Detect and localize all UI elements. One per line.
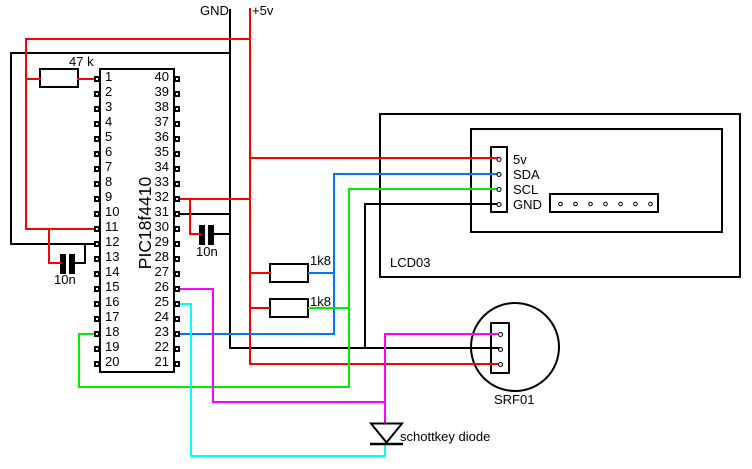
IC pin 4 square [94, 121, 100, 127]
SRF01 3-pin header [490, 322, 510, 374]
IC pin 39 number [130, 84, 169, 99]
LCD03 module outer box [379, 113, 741, 278]
capacitor C2 10n left plate [199, 225, 205, 245]
IC pin 1 number [105, 69, 112, 84]
resistor R-SDA 1k8 body [269, 263, 309, 283]
net label +5v [252, 3, 273, 18]
wire green bottom horizontal [78, 386, 350, 388]
wire cyan bottom horizontal [190, 455, 386, 457]
IC pin 38 number [130, 99, 169, 114]
IC pin 5 number [105, 129, 112, 144]
IC pin 16 number [105, 294, 119, 309]
wire red 47k right to pin 1 [77, 78, 95, 80]
IC pin 4 number [105, 114, 112, 129]
wire black C1 branch vertical [84, 243, 86, 264]
LCD03 pin label 5v [513, 152, 527, 167]
IC pin 19 number [105, 339, 119, 354]
IC pin 33 number [130, 174, 169, 189]
wire magenta pin 26 horizontal [179, 288, 214, 290]
wire red to 1k8 R-SDA left [249, 272, 271, 274]
IC pin 40 number [130, 69, 169, 84]
wire blue to LCD03 SDA pin [333, 173, 498, 175]
IC pin 31 number [130, 204, 169, 219]
label schottkey diode [400, 429, 490, 444]
wire blue pin 23 horizontal [179, 333, 335, 335]
IC pin 14 number [105, 264, 119, 279]
IC pin 25 number [130, 294, 169, 309]
wire red C1 left plate link [48, 262, 62, 264]
wire red top horizontal [25, 38, 251, 40]
value label 1k8 (R-SDA) [310, 253, 331, 268]
IC pin 16 square [94, 301, 100, 307]
IC pin 21 square [174, 361, 180, 367]
IC pin 35 square [174, 151, 180, 157]
IC pin 40 square [174, 76, 180, 82]
IC pin 37 square [174, 121, 180, 127]
value label 10n (C1) [54, 272, 76, 287]
IC pin 14 square [94, 271, 100, 277]
IC pin 2 square [94, 91, 100, 97]
IC pin 28 number [130, 249, 169, 264]
wire magenta to SRF01 pin 1 [384, 333, 498, 335]
IC pin 32 number [130, 189, 169, 204]
wire black C2 right plate to GND rail [213, 233, 231, 235]
IC pin 18 number [105, 324, 119, 339]
IC pin 1 square [94, 76, 100, 82]
IC pin 7 number [105, 159, 112, 174]
LCD03 7-hole connector [549, 193, 659, 213]
IC pin 31 square [174, 211, 180, 217]
resistor R-SCL 1k8 body [269, 298, 309, 318]
wire red to pin 11 [25, 228, 95, 230]
IC pin 3 square [94, 106, 100, 112]
IC pin 5 square [94, 136, 100, 142]
wire green to LCD03 SCL pin [348, 188, 498, 190]
wire magenta bottom horizontal [212, 401, 386, 403]
IC pin 12 square [94, 241, 100, 247]
IC pin 15 number [105, 279, 119, 294]
IC pin 28 square [174, 256, 180, 262]
IC pin 9 number [105, 189, 112, 204]
IC pin 21 number [130, 354, 169, 369]
IC pin 26 square [174, 286, 180, 292]
wire black pin 31 to GND rail [179, 213, 231, 215]
wire black to LCD03 GND pin [364, 203, 497, 205]
IC pin 10 square [94, 211, 100, 217]
LCD03 pin label SDA [513, 167, 540, 182]
wire black GND to SRF01 pin 2 [229, 347, 500, 349]
wire +5v rail vertical [249, 8, 251, 365]
IC pin 23 square [174, 331, 180, 337]
wire magenta vertical 1 [212, 288, 214, 403]
IC U1 name label [136, 163, 154, 283]
wire blue 1k8 R-SDA right link [308, 272, 335, 274]
LCD03 pin label GND [513, 197, 542, 212]
IC pin 30 number [130, 219, 169, 234]
value label 10n (C2) [196, 244, 218, 259]
IC pin 20 number [105, 354, 119, 369]
IC pin 27 number [130, 264, 169, 279]
IC pin 33 square [174, 181, 180, 187]
IC pin 9 square [94, 196, 100, 202]
IC pin 30 square [174, 226, 180, 232]
IC pin 34 square [174, 166, 180, 172]
wire red to SRF01 pin 3 [249, 363, 498, 365]
wire green SCL vertical [348, 188, 350, 388]
IC pin 20 square [94, 361, 100, 367]
IC pin 23 number [130, 324, 169, 339]
resistor 47k body [39, 68, 79, 88]
IC pin 11 number [105, 219, 119, 234]
IC pin 2 number [105, 84, 112, 99]
IC pin 27 square [174, 271, 180, 277]
IC pin 8 number [105, 174, 112, 189]
wire cyan vertical [190, 303, 192, 457]
wire red to LCD03 5v pin [249, 157, 498, 159]
IC pin 36 square [174, 136, 180, 142]
IC pin 32 square [174, 196, 180, 202]
wire black C1 right plate link [75, 262, 86, 264]
wire magenta diode vertical [384, 333, 386, 424]
wire blue SDA vertical [333, 173, 335, 335]
IC pin 7 square [94, 166, 100, 172]
wire red C2 left plate link [189, 233, 201, 235]
wire red C1 branch vertical [48, 228, 50, 264]
label SRF01 [494, 392, 534, 407]
IC pin 22 number [130, 339, 169, 354]
IC pin 26 number [130, 279, 169, 294]
IC pin 13 number [105, 249, 119, 264]
wire black to pin 12 [10, 243, 95, 245]
capacitor C1 10n right plate [69, 254, 75, 274]
IC pin 10 number [105, 204, 119, 219]
IC pin 17 number [105, 309, 119, 324]
IC pin 37 number [130, 114, 169, 129]
IC pin 8 square [94, 181, 100, 187]
wire red to 1k8 R-SCL left [249, 307, 270, 309]
IC pin 18 square [94, 331, 100, 337]
IC pin 11 square [94, 226, 100, 232]
wire black left vertical [10, 52, 12, 245]
IC pin 29 square [174, 241, 180, 247]
IC pin 12 number [105, 234, 119, 249]
IC pin 6 square [94, 151, 100, 157]
wire GND rail vertical [229, 9, 231, 349]
net label GND [200, 3, 229, 18]
wire green pin 18 horizontal [78, 333, 95, 335]
IC pin 24 square [174, 316, 180, 322]
IC pin 19 square [94, 346, 100, 352]
wire green 1k8 R-SCL right link [308, 307, 350, 309]
IC pin 25 square [174, 301, 180, 307]
value label 1k8 (R-SCL) [310, 294, 331, 309]
label LCD03 [390, 255, 430, 270]
value label 47k [69, 54, 94, 69]
LCD03 pin label SCL [513, 182, 538, 197]
wire black LCD GND vertical [364, 203, 366, 349]
IC pin 24 number [130, 309, 169, 324]
LCD03 inner board box [470, 128, 723, 233]
capacitor C2 10n right plate [208, 225, 214, 245]
IC pin 36 number [130, 129, 169, 144]
wire cyan pin 25 horizontal [179, 303, 192, 305]
IC pin 34 number [130, 159, 169, 174]
IC pin 39 square [174, 91, 180, 97]
LCD03 4-pin header [490, 146, 508, 213]
wire red MCLR vertical [25, 38, 27, 230]
wire green left vertical [78, 333, 80, 388]
IC pin 3 number [105, 99, 112, 114]
wire cyan diode cathode link [384, 445, 386, 457]
wire red pin 32 to +5v rail [179, 198, 251, 200]
IC pin 6 number [105, 144, 112, 159]
IC pin 38 square [174, 106, 180, 112]
IC U1 PIC18f4410 body [99, 68, 175, 373]
IC pin 35 number [130, 144, 169, 159]
IC pin 29 number [130, 234, 169, 249]
IC pin 17 square [94, 316, 100, 322]
wire black top horizontal [10, 52, 231, 54]
IC pin 13 square [94, 256, 100, 262]
IC pin 22 square [174, 346, 180, 352]
wire red C2 branch vertical [189, 198, 191, 235]
capacitor C1 10n left plate [60, 254, 66, 274]
wire red to 47k left [25, 78, 41, 80]
IC pin 15 square [94, 286, 100, 292]
